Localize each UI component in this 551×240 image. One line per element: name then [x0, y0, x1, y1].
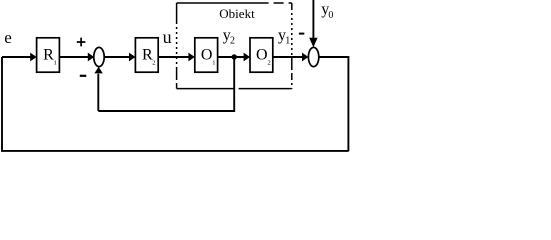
svg-text:e: e	[4, 28, 12, 47]
wire: inner feedback vertical from y2 dot	[233, 57, 235, 111]
arrowhead down into right sum	[309, 38, 317, 47]
arrowhead into inner sum	[88, 53, 94, 62]
block O2 (second plant section)	[250, 38, 273, 72]
svg-text:Obiekt: Obiekt	[219, 6, 255, 21]
block R1 (outer controller)	[37, 38, 60, 72]
summing junction S1 (inner)	[94, 47, 104, 66]
wire: y0 vertical input from top	[312, 0, 314, 38]
svg-text:1: 1	[285, 36, 290, 47]
junction dot at y2	[232, 54, 237, 59]
summing junction S2 (output comparison)	[308, 47, 318, 66]
wire: O1 to O2 with node y2	[218, 56, 244, 58]
arrowhead up into inner sum bottom	[94, 67, 102, 74]
wire: O2 to right summing junction	[273, 56, 303, 58]
wire: R1 to inner summing junction	[59, 56, 88, 58]
svg-text:O: O	[256, 47, 268, 64]
wire: e input line from left edge to R1	[2, 56, 31, 58]
block R2 (inner controller)	[135, 38, 158, 72]
dashed box Obiekt: right edge	[291, 3, 293, 89]
minus sign at right sum	[299, 33, 304, 35]
wire: inner feedback up vertical into inner sum	[97, 74, 99, 111]
svg-text:2: 2	[152, 60, 155, 67]
wire: outer feedback left vertical	[1, 57, 3, 151]
svg-text:0: 0	[328, 10, 333, 21]
wire: outer feedback right vertical	[347, 57, 349, 151]
wire: inner feedback bottom horizontal	[98, 110, 235, 112]
arrowhead into O2	[244, 53, 250, 62]
dashed box Obiekt: top edge	[177, 2, 292, 4]
plus sign at inner sum	[77, 38, 86, 47]
minus sign at inner sum	[80, 75, 87, 77]
wire: inner sum to R2	[104, 56, 129, 58]
wire: outer feedback bottom horizontal	[1, 150, 348, 152]
wire: R2 to O1	[158, 56, 189, 58]
svg-text:2: 2	[268, 60, 271, 67]
arrowhead into right sum	[302, 53, 308, 62]
dashed box Obiekt: bottom edge	[177, 88, 292, 90]
svg-text:1: 1	[212, 60, 215, 67]
arrowhead into O1	[188, 53, 194, 62]
svg-text:R: R	[43, 47, 54, 64]
svg-text:u: u	[163, 27, 172, 47]
dashed box Obiekt: left edge	[176, 3, 178, 89]
svg-text:2: 2	[230, 36, 235, 47]
block O1 (first plant section)	[195, 38, 218, 72]
wire: right sum output to corner	[319, 56, 350, 58]
arrowhead into R2	[129, 53, 135, 62]
svg-text:O: O	[201, 47, 213, 64]
svg-text:1: 1	[54, 60, 57, 67]
arrowhead into R1	[30, 53, 36, 62]
